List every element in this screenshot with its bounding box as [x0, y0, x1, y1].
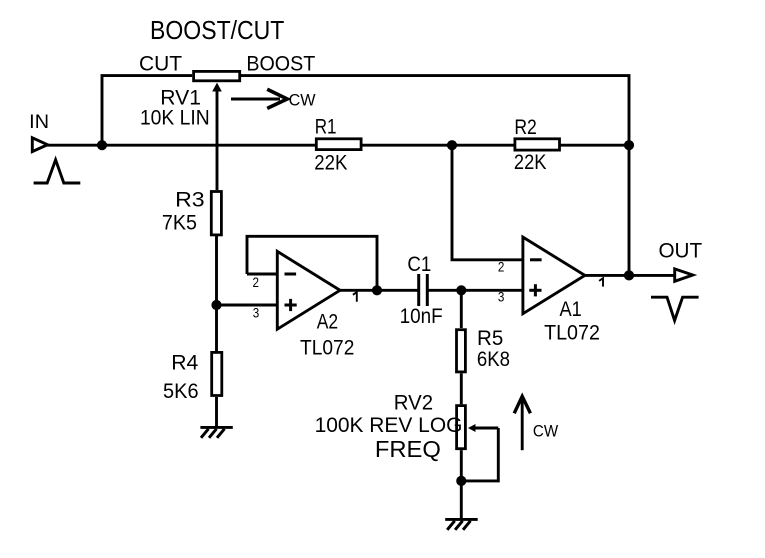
- node: C1 / R5 / A1 pin3: [456, 285, 466, 295]
- wire: R2 to right rail: [560, 144, 629, 147]
- node: right rail at bus: [624, 140, 634, 150]
- svg-text:3: 3: [253, 305, 260, 321]
- svg-text:2: 2: [252, 274, 259, 290]
- svg-text:C1: C1: [407, 253, 431, 276]
- wire: A1 output to OUT: [585, 274, 675, 277]
- wire: node to RV1 CUT end: [102, 76, 192, 146]
- svg-text:10nF: 10nF: [400, 305, 443, 328]
- input port IN: [32, 138, 47, 152]
- svg-text:6K8: 6K8: [477, 348, 510, 371]
- ground (below RV2): [445, 519, 478, 529]
- svg-text:RV2: RV2: [394, 391, 433, 414]
- svg-text:5K6: 5K6: [163, 380, 199, 403]
- op-amp A2: [217, 251, 341, 329]
- wire: main bus IN to R1: [46, 144, 317, 147]
- node: between R1 and R2: [447, 140, 457, 150]
- pin 1 label (A2): [353, 292, 357, 302]
- svg-text:BOOST: BOOST: [246, 53, 315, 76]
- wire: node to A1 pin3: [461, 289, 523, 292]
- svg-text:CW: CW: [533, 421, 558, 440]
- svg-text:R1: R1: [315, 116, 337, 139]
- wire: node down to A1 pin2: [452, 145, 523, 260]
- CW arrow for RV1: [231, 89, 287, 108]
- resistor R4: [212, 352, 222, 395]
- wire: R3 to node: [215, 236, 218, 305]
- wire: RV1 BOOST end to right rail: [241, 76, 629, 276]
- wire: R4 to ground: [215, 397, 218, 427]
- wire: R1 to R2: [362, 144, 514, 147]
- node: A2 pin3 junction: [211, 300, 221, 310]
- svg-text:TL072: TL072: [544, 322, 600, 345]
- output waveform: [651, 297, 699, 320]
- resistor R3: [211, 192, 221, 235]
- svg-text:100K REV LOG: 100K REV LOG: [315, 414, 463, 437]
- wire: A2 output to C1: [340, 289, 419, 292]
- svg-text:22K: 22K: [514, 151, 547, 174]
- node: RV2 bottom junction: [456, 476, 466, 486]
- svg-text:OUT: OUT: [658, 239, 702, 262]
- wire: RV2 bottom to ground: [460, 450, 463, 519]
- svg-text:7K5: 7K5: [162, 211, 197, 234]
- svg-text:R3: R3: [175, 188, 205, 211]
- svg-text:TL072: TL072: [300, 337, 354, 360]
- svg-text:R4: R4: [171, 351, 198, 374]
- CW arrow for RV2: [514, 396, 530, 450]
- node: output junction: [624, 270, 634, 280]
- svg-text:CUT: CUT: [139, 53, 182, 76]
- ground (below R4): [200, 427, 232, 437]
- svg-text:CW: CW: [289, 91, 316, 110]
- wire: node to R4: [215, 305, 218, 351]
- resistor R2: [515, 139, 560, 150]
- wire: node down to R5: [460, 290, 463, 328]
- svg-text:FREQ: FREQ: [375, 436, 441, 462]
- node: A2 output: [372, 285, 382, 295]
- potentiometer RV2: [457, 406, 499, 481]
- feedback wire A2: [247, 236, 377, 290]
- svg-text:IN: IN: [29, 112, 49, 133]
- resistor R5: [457, 330, 466, 372]
- potentiometer RV1: [194, 71, 240, 190]
- svg-text:A1: A1: [560, 298, 582, 321]
- svg-text:R5: R5: [477, 327, 503, 350]
- op-amp A1: [523, 237, 585, 314]
- svg-text:BOOST/CUT: BOOST/CUT: [150, 15, 284, 45]
- resistor R1: [316, 139, 361, 150]
- wire: R5 to RV2: [460, 373, 463, 404]
- svg-text:3: 3: [498, 288, 505, 304]
- svg-text:22K: 22K: [314, 152, 347, 175]
- pin 1 label (A1): [599, 278, 603, 286]
- input waveform: [34, 160, 81, 183]
- svg-text:A2: A2: [317, 310, 338, 333]
- node: input junction: [97, 140, 107, 150]
- svg-text:10K LIN: 10K LIN: [140, 107, 210, 130]
- capacitor C1: [419, 274, 462, 306]
- svg-text:2: 2: [498, 259, 505, 275]
- output port OUT: [675, 269, 693, 281]
- svg-text:R2: R2: [514, 116, 537, 139]
